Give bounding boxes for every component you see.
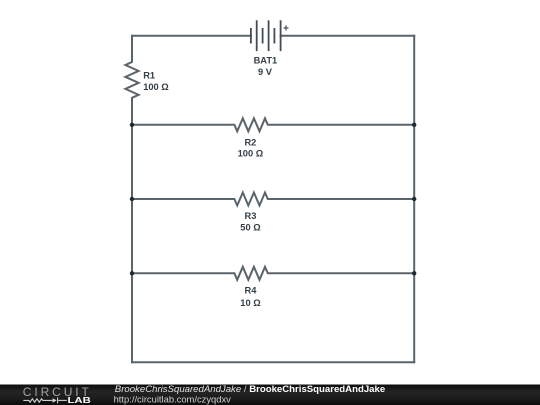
svg-text:100 Ω: 100 Ω bbox=[238, 149, 264, 159]
svg-text:100 Ω: 100 Ω bbox=[143, 82, 169, 92]
svg-text:10 Ω: 10 Ω bbox=[240, 298, 261, 308]
svg-text:50 Ω: 50 Ω bbox=[240, 222, 261, 232]
svg-text:R2: R2 bbox=[244, 138, 256, 148]
svg-text:LAB: LAB bbox=[68, 395, 91, 405]
svg-text:R3: R3 bbox=[245, 211, 257, 221]
svg-text:BAT1: BAT1 bbox=[254, 56, 278, 66]
svg-text:R1: R1 bbox=[143, 70, 155, 80]
svg-text:R4: R4 bbox=[245, 286, 258, 296]
svg-text:http://circuitlab.com/czyqdxv: http://circuitlab.com/czyqdxv bbox=[114, 394, 232, 405]
svg-text:9 V: 9 V bbox=[258, 67, 273, 77]
